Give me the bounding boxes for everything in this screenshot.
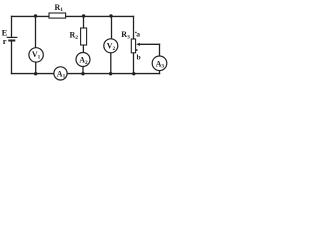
wire A2 branch lower xyxy=(82,66,84,73)
node bottom V1 junction xyxy=(34,72,37,75)
wire bottom bus right of A1 xyxy=(67,73,159,75)
svg-text:b: b xyxy=(137,52,141,61)
ammeter A2 xyxy=(76,53,90,67)
svg-text:R1: R1 xyxy=(55,3,64,13)
wire R3 branch lower xyxy=(133,53,135,74)
wire left branch upper xyxy=(11,16,13,37)
wire top bus xyxy=(12,15,50,17)
wire R2 to A2 xyxy=(82,45,84,53)
svg-text:a: a xyxy=(136,30,140,39)
svg-text:r: r xyxy=(3,36,7,46)
node top R2 junction xyxy=(82,14,85,17)
wire wiper down to A3 xyxy=(159,44,161,56)
node top V1 junction xyxy=(34,14,37,17)
ammeter A3 xyxy=(152,56,167,71)
rheostat R3 wiper arrowhead xyxy=(136,43,140,46)
wire V2 branch upper xyxy=(111,16,113,39)
svg-text:R2: R2 xyxy=(70,31,79,41)
node top V2 junction xyxy=(109,14,112,17)
rheostat R3 terminal tick a xyxy=(135,32,136,33)
voltmeter V1 xyxy=(29,48,43,62)
ammeter A1 xyxy=(54,67,67,80)
wire R2 branch upper xyxy=(83,16,85,28)
node bottom V2 junction xyxy=(109,72,112,75)
wire top bus right of R1 xyxy=(66,15,134,17)
battery E r short plate xyxy=(9,40,14,42)
wire A3 to bottom bus xyxy=(159,70,161,73)
node bottom R3 junction xyxy=(132,72,135,75)
voltmeter V2 xyxy=(104,39,118,53)
wire left branch lower xyxy=(11,41,13,73)
rheostat R3 terminal tick b xyxy=(136,49,138,51)
resistor R2 xyxy=(81,28,87,45)
wire V1 branch lower xyxy=(35,62,37,74)
wire bottom bus left xyxy=(12,73,54,75)
node bottom A2 junction xyxy=(81,72,84,75)
rheostat R3 xyxy=(131,39,135,53)
wire V2 branch lower xyxy=(110,53,112,74)
svg-text:R3: R3 xyxy=(121,30,130,40)
resistor R1 xyxy=(49,13,66,18)
wire R3 wiper horizontal xyxy=(139,43,159,45)
wire R3 branch upper xyxy=(133,16,135,39)
wire V1 branch upper xyxy=(35,16,37,47)
battery E r long plate xyxy=(7,36,17,38)
